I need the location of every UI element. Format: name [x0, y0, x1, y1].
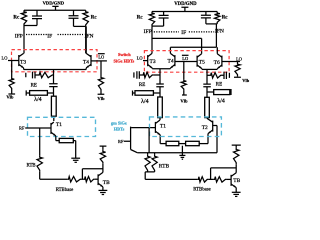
wire to TB base (right) — [227, 178, 232, 180]
svg-text:λ/4: λ/4 — [141, 99, 149, 105]
resistor emitter degeneration 2 (right) — [186, 141, 208, 145]
capacitor bypass A (right) — [156, 84, 164, 97]
capacitor RE blocking B (right) — [222, 72, 229, 79]
resistor RTB (left) — [27, 128, 43, 179]
wire join left branch — [24, 25, 37, 27]
wire IFN lead (right) — [215, 24, 217, 47]
node IFN (left) — [85, 33, 94, 39]
wire T6 base to LO — [222, 61, 240, 63]
resistor LO bias (left-right) — [98, 61, 105, 94]
wire emitter rail A (right) — [152, 68, 170, 70]
svg-text:IFP: IFP — [15, 33, 23, 39]
svg-text:RE: RE — [216, 83, 222, 88]
wire IFN lead — [85, 26, 87, 53]
transistor T3 (right) — [148, 53, 156, 68]
transistor T3 (left) — [19, 53, 27, 69]
svg-text:λ/4: λ/4 — [34, 97, 42, 103]
svg-text:RE: RE — [139, 83, 145, 88]
transistor TB (right) — [231, 173, 240, 192]
svg-text:Vlb: Vlb — [242, 78, 249, 83]
svg-text:IF: IF — [181, 30, 186, 36]
wire IF dashed (right) — [154, 30, 214, 36]
node LO (right middle, inverted) — [182, 55, 189, 61]
wire IFP rail to T5 — [152, 38, 202, 53]
svg-text:Rc: Rc — [91, 15, 98, 20]
svg-text:VDD/GND: VDD/GND — [174, 2, 197, 7]
capacitor (right-left) — [159, 12, 169, 27]
capacitor (right-right) — [201, 12, 211, 24]
wire top rail (left) — [24, 9, 86, 11]
wire RF feed (right) — [124, 127, 138, 153]
svg-text:RE: RE — [31, 83, 37, 88]
capacitor RE blocking A (right) — [134, 71, 142, 78]
svg-text:T4: T4 — [168, 58, 174, 64]
capacitor (left-left) — [32, 10, 42, 25]
svg-text:LO: LO — [236, 57, 242, 62]
resistor TB collector (right) — [232, 145, 241, 173]
transistor T4 (left) — [83, 26, 91, 69]
resistor LO bias (far left) — [8, 61, 15, 95]
transmission line A (right) — [158, 97, 163, 118]
wire top rail (right) — [152, 11, 217, 13]
resistor RTB parallel 1 (right) — [145, 153, 150, 172]
node LO (right far-left) — [137, 55, 143, 60]
supply terminal (right) — [181, 7, 188, 11]
svg-text:T2: T2 — [202, 125, 208, 131]
svg-text:Vlb: Vlb — [6, 95, 14, 100]
supply terminal (left) — [52, 6, 58, 10]
svg-text:λ/4: λ/4 — [217, 98, 225, 104]
svg-text:VDD/GND: VDD/GND — [43, 1, 65, 6]
node IFP (right) — [144, 29, 152, 35]
transmission line B (right) — [205, 97, 210, 117]
transistor TB (left) — [98, 172, 110, 190]
svg-text:RTBbase: RTBbase — [193, 187, 211, 192]
node LO (left input) — [2, 56, 8, 61]
resistor Rc (left-right) — [83, 10, 97, 26]
capacitor bypass B (right) — [203, 84, 211, 97]
ground (right TB) — [232, 192, 241, 196]
svg-text:IFN: IFN — [215, 29, 224, 35]
wire join (right-left) — [152, 25, 164, 27]
wire T2 base return — [213, 126, 217, 153]
resistor RE (left) — [31, 72, 54, 88]
label Switch SiGe HBTs (red) — [114, 52, 135, 64]
transistor T6 (right) — [214, 47, 222, 69]
svg-text:TB: TB — [233, 178, 240, 184]
wire bias bottom (right) — [145, 178, 197, 180]
resistor RTBbase2 (right) — [193, 177, 226, 193]
resistor RTBbase2 (left) — [56, 177, 95, 194]
stub lambda/4 B (right) — [207, 89, 231, 104]
svg-text:HBTs: HBTs — [114, 127, 125, 132]
svg-text:T5: T5 — [199, 59, 205, 65]
node LO (right far-right) — [236, 57, 242, 62]
svg-text:LO: LO — [98, 54, 104, 59]
wire RTB join (right) — [145, 172, 154, 180]
svg-text:LO: LO — [2, 56, 8, 61]
resistor Rc (left-left) — [13, 10, 26, 25]
resistor emitter degeneration (left) — [56, 138, 76, 158]
wire IFP lead — [23, 26, 25, 54]
wire RF to T1 base (right) — [131, 127, 155, 129]
wire bias rail (right) — [137, 152, 217, 154]
transistor T1 (right) — [155, 118, 166, 144]
wire T4 base to LO — [91, 60, 107, 62]
transistor T1 (left) — [51, 122, 62, 141]
wire emitter tap B (right) — [206, 69, 208, 84]
resistor LO bias (right far-right) — [234, 62, 241, 78]
svg-text:T6: T6 — [214, 60, 220, 66]
wire feedback (left) — [81, 169, 103, 180]
node RF (left input) — [19, 126, 25, 131]
ground (right center) — [179, 155, 185, 159]
svg-text:LO: LO — [182, 56, 188, 61]
svg-text:LO: LO — [137, 55, 143, 60]
wire feedback (right) — [208, 168, 236, 180]
resistor RE A (right) — [139, 72, 153, 88]
net Vlb (left-right) — [97, 96, 105, 101]
wire to TB base (left) — [95, 178, 98, 180]
resistor emitter degeneration 1 (right) — [160, 141, 185, 145]
wire center tap to ground (right) — [181, 146, 183, 156]
svg-text:T1: T1 — [56, 122, 62, 128]
wire RE A to tap — [153, 74, 160, 76]
net Vlb (far left) — [6, 95, 14, 100]
net VDD/GND (right) — [174, 2, 197, 7]
gm cell box (left, cyan dashed) — [28, 117, 96, 136]
capacitor (left-right) — [69, 10, 79, 26]
svg-text:Switch: Switch — [118, 52, 131, 57]
ground (left TB) — [99, 190, 108, 194]
transmission line (left) — [51, 96, 56, 121]
wire join right branch — [74, 25, 86, 27]
net VDD/GND (left) — [43, 1, 65, 6]
wire bias bottom (left) — [40, 178, 68, 180]
wire emitter rail (left) — [24, 69, 87, 71]
label gm SiGe HBTs (teal) — [111, 120, 127, 131]
resistor Rc (right-left) — [137, 12, 155, 27]
transistor T4 (right) — [168, 53, 175, 68]
resistor Rc (right-right) — [215, 12, 229, 24]
wire IFP lead (right) — [151, 26, 153, 53]
svg-text:RTB: RTB — [27, 163, 36, 168]
node LO (left-right, inverted) — [98, 54, 105, 60]
svg-text:Vlb: Vlb — [97, 96, 105, 101]
svg-text:RTB: RTB — [159, 164, 170, 170]
wire LO to T3 base — [8, 60, 19, 62]
svg-text:IF: IF — [47, 33, 52, 39]
wire IF dashed (left) — [26, 33, 83, 39]
node IFN (right) — [215, 29, 224, 35]
resistor TB collector (left) — [100, 146, 107, 172]
stub lambda/4 (left) — [26, 90, 53, 103]
stub lambda/4 A (right) — [133, 91, 161, 105]
svg-text:Rc: Rc — [222, 16, 229, 21]
capacitor RE blocking (left) — [26, 72, 38, 79]
node RF (right input) — [118, 139, 124, 144]
resistor LO bias (right middle) — [181, 62, 187, 96]
svg-text:Rc: Rc — [137, 15, 144, 20]
net Vlb (right middle) — [180, 99, 188, 104]
wire emitter rail B (right) — [202, 68, 217, 70]
svg-text:T3: T3 — [20, 59, 26, 65]
resistor RTBbase1 (left) — [67, 177, 81, 182]
capacitor bypass (left) — [49, 84, 57, 97]
wire RF to T1 base — [25, 127, 51, 129]
svg-text:Vlb: Vlb — [180, 99, 188, 104]
svg-text:T4: T4 — [83, 59, 89, 65]
wire emitter tap A (right) — [159, 69, 161, 84]
resistor RE B (right) — [207, 73, 222, 88]
gm cell box (right, cyan dashed) — [150, 117, 222, 137]
svg-text:T1: T1 — [160, 124, 166, 130]
resistor RTB parallel 2 (right) — [152, 153, 169, 172]
node IFP (left) — [15, 33, 23, 39]
svg-text:IFP: IFP — [144, 29, 152, 35]
ground (left degeneration) — [71, 158, 80, 162]
svg-text:gm SiGe: gm SiGe — [111, 120, 127, 125]
switch quad box (left, red dashed) — [12, 50, 98, 72]
switch quad box (right, red dashed) — [144, 51, 229, 73]
svg-text:SiGe HBTs: SiGe HBTs — [114, 59, 135, 64]
wire join (right-right) — [206, 23, 217, 25]
wire LO bar T4-T5 — [175, 61, 197, 63]
wire LO to T3 base (right) — [143, 60, 148, 62]
net Vlb (right far-right) — [242, 78, 249, 83]
svg-text:RF: RF — [118, 139, 124, 144]
svg-text:Rc: Rc — [13, 15, 20, 20]
resistor RTBbase1 (right) — [197, 177, 208, 182]
transistor T5 (right) — [197, 54, 205, 70]
transistor T2 (right) — [202, 118, 213, 144]
svg-text:RF: RF — [19, 126, 25, 131]
wire T1 base tap (right) — [148, 128, 150, 153]
svg-text:RTBbase: RTBbase — [56, 188, 74, 193]
svg-text:TB: TB — [103, 180, 110, 186]
wire emitter tap (left) — [53, 70, 55, 84]
wire IFN rail to T4 — [170, 47, 216, 53]
svg-text:T3: T3 — [150, 59, 156, 65]
